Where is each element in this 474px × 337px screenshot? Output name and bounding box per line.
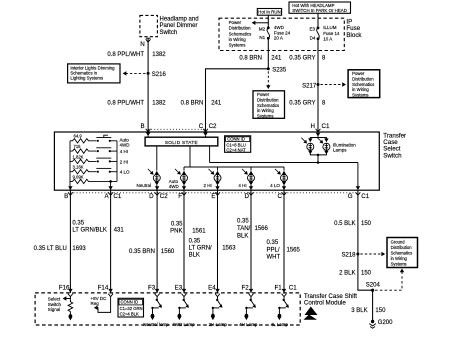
svg-text:LT GRN/BLK: LT GRN/BLK (72, 228, 106, 234)
svg-text:F16: F16 (59, 285, 70, 292)
svg-text:BLK: BLK (237, 233, 248, 239)
svg-text:Distribution: Distribution (257, 98, 279, 103)
svg-text:F1: F1 (274, 285, 282, 292)
svg-text:Hot In RUN: Hot In RUN (258, 10, 280, 15)
svg-text:20 A: 20 A (274, 36, 283, 41)
svg-text:E3: E3 (309, 27, 315, 32)
svg-text:Neutral lamp: Neutral lamp (143, 322, 169, 327)
svg-text:E: E (211, 193, 215, 200)
svg-text:S204: S204 (366, 282, 381, 288)
svg-text:G200: G200 (378, 320, 393, 326)
svg-text:B: B (140, 123, 144, 130)
svg-text:Systems: Systems (391, 262, 407, 267)
svg-text:C1: C1 (289, 285, 297, 292)
svg-text:241: 241 (211, 101, 222, 107)
svg-text:in Wiring: in Wiring (352, 87, 369, 92)
svg-text:H: H (311, 123, 315, 130)
svg-text:SWITCH In PARK Or HEAD: SWITCH In PARK Or HEAD (292, 8, 347, 13)
svg-text:150: 150 (361, 270, 372, 276)
svg-text:0.35 LT BLU: 0.35 LT BLU (34, 246, 67, 252)
svg-text:1565: 1565 (287, 247, 301, 253)
svg-text:4L Lamp: 4L Lamp (271, 322, 289, 327)
svg-text:431: 431 (114, 228, 125, 234)
svg-text:715: 715 (74, 144, 82, 149)
svg-text:0.8 BRN: 0.8 BRN (239, 55, 262, 61)
svg-text:1.82K: 1.82K (73, 154, 84, 159)
svg-text:4 LO: 4 LO (270, 183, 280, 188)
svg-text:in Wiring: in Wiring (257, 108, 274, 113)
svg-text:in Wiring: in Wiring (229, 37, 247, 42)
svg-text:Control Module: Control Module (304, 300, 347, 307)
svg-text:3.16K: 3.16K (73, 165, 84, 170)
svg-text:Distribution: Distribution (352, 77, 374, 82)
svg-text:Switch: Switch (48, 302, 62, 307)
svg-text:9.09K: 9.09K (73, 175, 84, 180)
svg-text:TAN/: TAN/ (237, 226, 251, 232)
svg-text:Schematics: Schematics (257, 103, 279, 108)
svg-text:Systems: Systems (229, 43, 247, 48)
svg-text:Power: Power (352, 71, 365, 76)
svg-text:0.8 BRN: 0.8 BRN (181, 101, 204, 107)
svg-text:Fuse 24: Fuse 24 (274, 30, 291, 35)
svg-text:Signal: Signal (48, 307, 61, 312)
svg-text:Lamps: Lamps (333, 147, 347, 152)
svg-text:150: 150 (361, 221, 372, 227)
svg-text:0.35: 0.35 (267, 240, 279, 246)
svg-text:E4: E4 (208, 285, 216, 292)
svg-text:Schematics: Schematics (229, 31, 252, 36)
svg-text:C1: C1 (322, 123, 330, 130)
svg-text:Headlamp and: Headlamp and (160, 17, 199, 23)
svg-text:4 HI: 4 HI (238, 183, 246, 188)
svg-text:241: 241 (271, 55, 282, 61)
svg-text:SOLID STATE: SOLID STATE (165, 140, 198, 145)
svg-text:0.35: 0.35 (171, 222, 183, 228)
svg-text:Power: Power (257, 92, 270, 97)
svg-text:Systems: Systems (257, 113, 273, 118)
svg-text:1560: 1560 (161, 249, 175, 255)
svg-text:E3: E3 (175, 285, 183, 292)
svg-text:64.9: 64.9 (74, 134, 83, 139)
svg-text:Neutral: Neutral (136, 183, 151, 188)
svg-text:2 HI: 2 HI (204, 183, 212, 188)
svg-text:4 LO: 4 LO (120, 170, 130, 175)
svg-text:4H Lamp: 4H Lamp (239, 322, 258, 327)
svg-text:0.35: 0.35 (189, 239, 201, 245)
svg-text:S217: S217 (302, 83, 317, 89)
svg-text:C: C (278, 193, 283, 200)
svg-text:Schematics: Schematics (391, 251, 413, 256)
svg-text:10 A: 10 A (323, 36, 332, 41)
svg-text:Lighting Systems: Lighting Systems (70, 76, 103, 81)
svg-text:Systems: Systems (352, 92, 368, 97)
svg-text:PNK: PNK (170, 229, 182, 235)
svg-text:0.35 GRY: 0.35 GRY (289, 101, 315, 107)
svg-text:Select: Select (48, 297, 61, 302)
svg-text:S216: S216 (152, 72, 167, 78)
svg-text:D: D (149, 193, 154, 200)
svg-text:4WD Lamp: 4WD Lamp (172, 322, 195, 327)
svg-text:C1: C1 (361, 193, 369, 200)
svg-text:Ground: Ground (391, 240, 406, 245)
svg-text:PPL/: PPL/ (267, 247, 280, 253)
svg-text:0.35: 0.35 (72, 221, 84, 227)
svg-text:Schematics: Schematics (352, 82, 374, 87)
svg-text:in Wiring: in Wiring (391, 256, 408, 261)
svg-text:Panel Dimmer: Panel Dimmer (160, 23, 198, 29)
svg-text:1566: 1566 (255, 226, 269, 232)
svg-text:Block: Block (346, 32, 362, 39)
svg-text:S218: S218 (341, 253, 356, 259)
svg-text:4WD: 4WD (120, 142, 131, 147)
svg-text:D: D (245, 193, 250, 200)
svg-text:CONN ID: CONN ID (227, 137, 245, 142)
svg-text:F14: F14 (98, 285, 109, 292)
svg-text:0.35 BRN: 0.35 BRN (129, 249, 155, 255)
svg-text:LT GRN/: LT GRN/ (189, 246, 212, 252)
svg-text:1693: 1693 (72, 246, 86, 252)
svg-text:1561: 1561 (192, 229, 206, 235)
svg-text:Distribution: Distribution (229, 26, 252, 31)
svg-text:0.5 BLK: 0.5 BLK (334, 221, 355, 227)
svg-text:4WD: 4WD (169, 184, 180, 189)
svg-text:Reg: Reg (91, 301, 100, 306)
svg-text:C2=4 BLK: C2=4 BLK (120, 312, 139, 317)
svg-text:C1: C1 (113, 193, 121, 200)
svg-text:Distribution: Distribution (391, 245, 413, 250)
svg-text:BLK: BLK (189, 253, 200, 259)
svg-text:0.8 PPL/WHT: 0.8 PPL/WHT (107, 52, 144, 58)
svg-text:D4: D4 (310, 36, 316, 41)
svg-text:1563: 1563 (222, 246, 236, 252)
svg-text:C2=4 NAT: C2=4 NAT (226, 148, 246, 153)
svg-text:B: B (64, 193, 68, 200)
svg-text:N: N (140, 41, 144, 48)
svg-text:Switch: Switch (383, 152, 402, 159)
svg-text:1382: 1382 (152, 101, 166, 107)
svg-text:4 HI: 4 HI (120, 149, 128, 154)
svg-text:G: G (348, 193, 353, 200)
svg-text:M2: M2 (259, 26, 266, 31)
svg-text:1382: 1382 (152, 52, 166, 58)
svg-text:Fuse 14: Fuse 14 (323, 31, 340, 36)
svg-text:C1=32 GRN: C1=32 GRN (120, 306, 143, 311)
svg-text:Power: Power (229, 20, 242, 25)
svg-text:S235: S235 (272, 68, 287, 74)
svg-text:ILLUM: ILLUM (323, 25, 337, 30)
svg-text:F2: F2 (241, 285, 249, 292)
svg-text:C2: C2 (209, 123, 217, 130)
svg-text:3 BLK: 3 BLK (351, 308, 367, 314)
svg-text:2H Lamp: 2H Lamp (209, 322, 228, 327)
svg-text:F: F (178, 193, 182, 200)
svg-text:150: 150 (375, 308, 386, 314)
svg-text:0.35 GRY: 0.35 GRY (289, 55, 315, 61)
svg-text:Switch: Switch (160, 30, 178, 36)
svg-text:C2: C2 (160, 193, 168, 200)
svg-text:0.35: 0.35 (237, 219, 249, 225)
svg-text:0.8 PPL/WHT: 0.8 PPL/WHT (107, 101, 144, 107)
svg-text:2 BLK: 2 BLK (339, 270, 355, 276)
svg-text:CONN ID: CONN ID (121, 300, 139, 305)
svg-text:WHT: WHT (267, 255, 281, 261)
svg-text:4WD: 4WD (274, 25, 285, 30)
svg-text:F3: F3 (148, 285, 156, 292)
svg-text:2 HI: 2 HI (120, 160, 128, 165)
svg-text:N1: N1 (259, 35, 265, 40)
